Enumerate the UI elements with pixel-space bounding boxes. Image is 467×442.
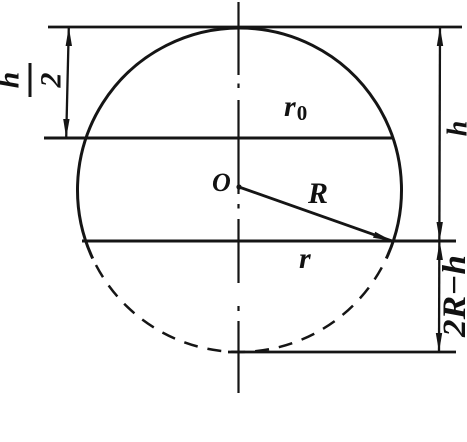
- svg-text:2: 2: [35, 73, 68, 89]
- svg-text:r: r: [299, 242, 311, 275]
- svg-text:h: h: [443, 121, 467, 137]
- svg-text:2R−h: 2R−h: [437, 255, 467, 338]
- svg-text:O: O: [212, 168, 231, 197]
- svg-text:h: h: [0, 72, 26, 89]
- svg-text:R: R: [307, 177, 328, 210]
